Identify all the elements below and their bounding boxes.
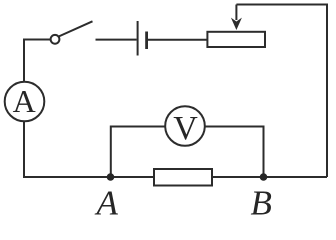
voltmeter circle xyxy=(165,106,205,146)
battery short plate xyxy=(145,32,148,50)
battery long plate xyxy=(137,21,139,56)
svg-text:A: A xyxy=(13,83,36,119)
node B junction dot xyxy=(260,173,268,181)
wire node B to resistor right terminal xyxy=(212,176,264,178)
svg-text:B: B xyxy=(251,183,272,218)
switch S blade (open) xyxy=(59,21,93,36)
svg-text:A: A xyxy=(95,183,119,218)
wire from switch fixed contact to battery positive plate xyxy=(96,39,137,41)
wire bottom-right corner to node B xyxy=(264,176,328,178)
wire node A up to voltmeter left terminal xyxy=(111,127,165,178)
wire resistor left terminal to node A xyxy=(111,176,155,178)
svg-text:V: V xyxy=(173,110,198,147)
ammeter circle xyxy=(5,82,45,122)
wire from ammeter top up and right to switch pivot xyxy=(24,40,51,82)
resistor R body rectangle xyxy=(154,169,212,186)
rheostat wiper arrow stem xyxy=(235,5,237,21)
rheostat body rectangle xyxy=(207,32,265,47)
wire voltmeter right terminal across and down to node B xyxy=(205,127,264,178)
rheostat wiper arrowhead xyxy=(231,18,242,30)
wire from battery to rheostat left terminal xyxy=(148,39,207,41)
node A junction dot xyxy=(107,173,115,181)
wire from wiper up, across the top and down the right side xyxy=(236,5,327,178)
switch S pivot circle xyxy=(51,35,60,44)
wire node A left and up to ammeter bottom xyxy=(24,121,111,177)
